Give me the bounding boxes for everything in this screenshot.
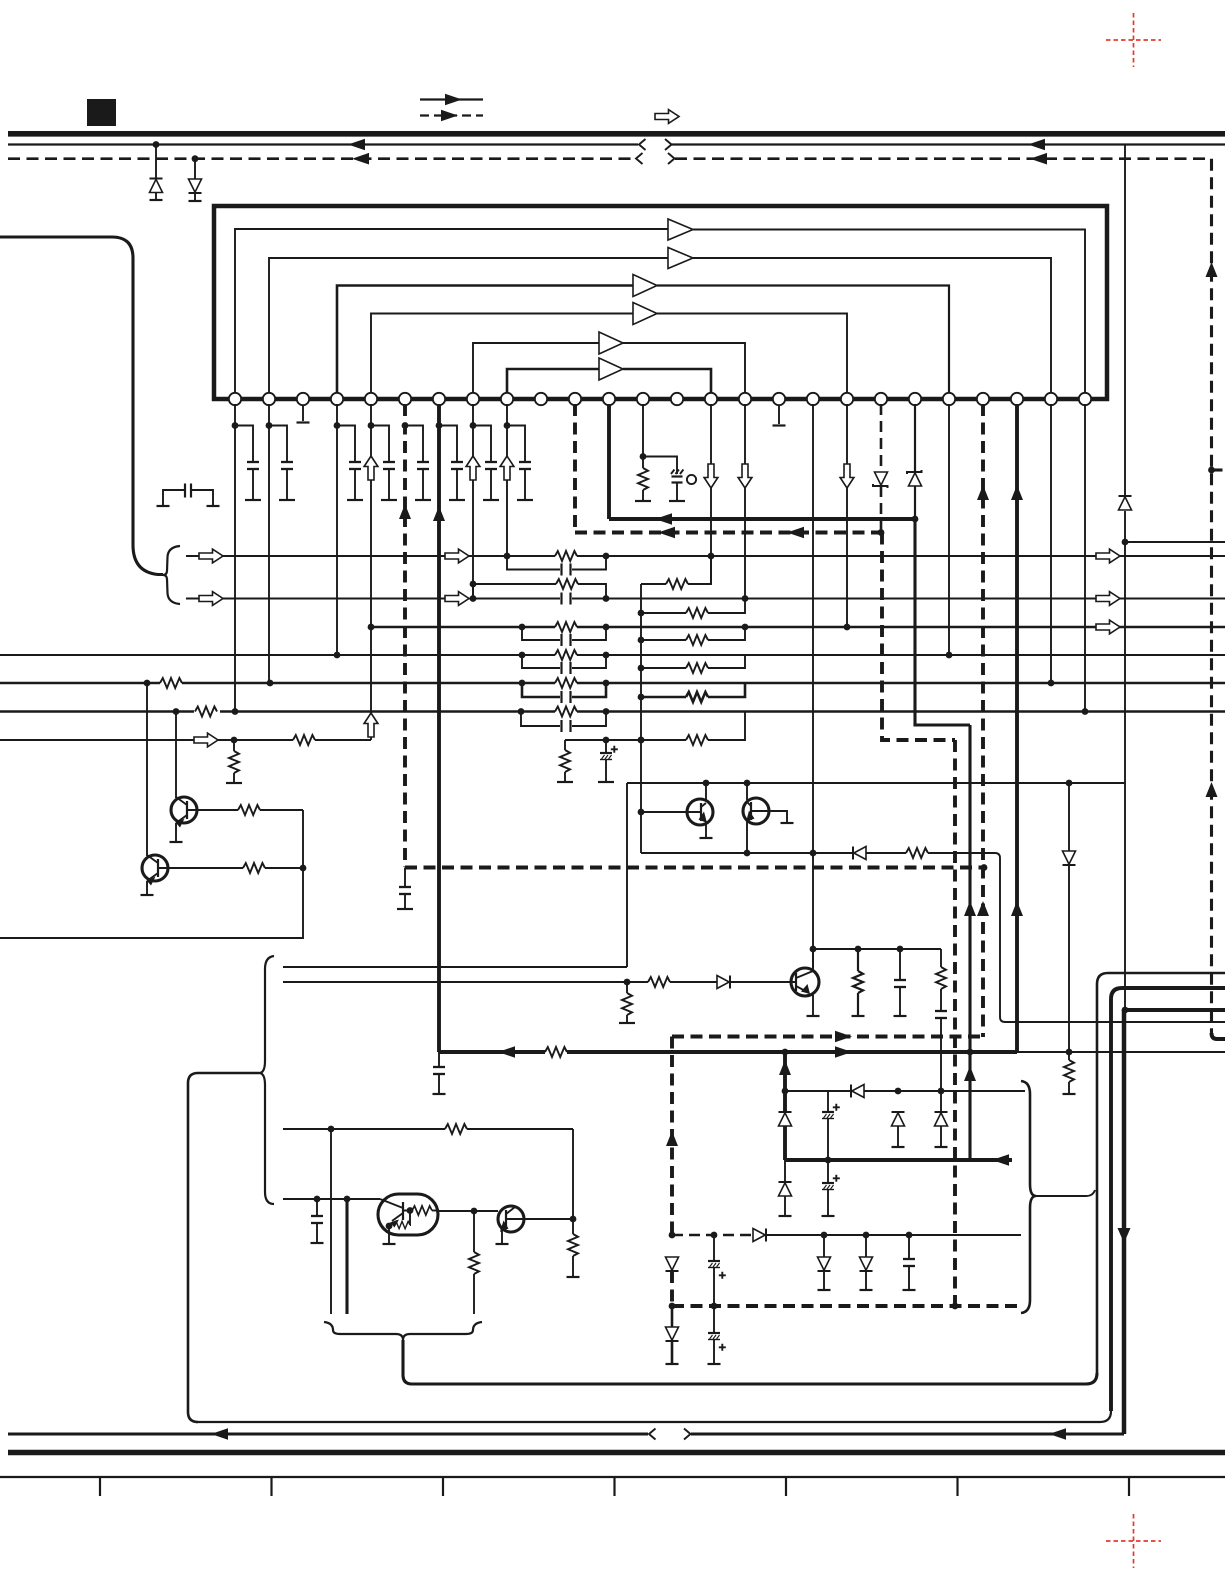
wire pin6 dashed drop <box>399 404 411 867</box>
buffer A3 input wire <box>337 286 633 396</box>
resistor R20 Q2 base <box>168 863 306 873</box>
wire pin12 thick drop <box>607 404 611 519</box>
buffer A4 <box>633 303 657 325</box>
capacitor C14 loop under y683 <box>522 683 606 703</box>
resistor R14 on y711.5 <box>555 707 577 717</box>
diode D13 x672 bottom <box>666 1306 679 1364</box>
wire: line y542 <box>1125 541 1225 543</box>
resistor R3 branch y584 right <box>641 556 711 589</box>
capacitor C11 on y598.5 <box>562 593 571 605</box>
wire: signal line y556 <box>186 549 1225 563</box>
capacitor C5 <box>405 426 431 501</box>
wire: thick line y1160 <box>785 1154 1012 1166</box>
pin3 nc stub <box>297 406 310 423</box>
brace B0 <box>163 546 180 604</box>
wire: bottom return line y1414 <box>196 1411 1111 1422</box>
wire: thick vertical x347 <box>345 1199 348 1314</box>
wire pin16 drop <box>738 404 752 598</box>
wire pin8 drop <box>466 404 480 598</box>
wire: right vertical x1097 with top corner <box>1097 973 1225 1373</box>
wire: bottom thick bus y1452.5 <box>8 1450 1225 1456</box>
node on dashed bus x195 <box>192 155 199 162</box>
capacitor C4 <box>371 426 397 501</box>
wire: thick line y627 <box>368 620 1225 634</box>
wire pin25 drop <box>1050 404 1052 683</box>
wire: right vertical x1111 with top corner <box>1111 988 1225 1411</box>
resistor R12 on y711.5 left <box>195 707 217 717</box>
wire pin23 dashed drop <box>977 404 989 1037</box>
diode D11 x824 <box>818 1235 831 1290</box>
wire: top thick bus <box>8 131 1225 137</box>
wire pin11 dashed drop <box>573 404 577 533</box>
diode D9 on y1235 <box>753 1229 766 1242</box>
wire Q3 emitter <box>700 824 713 838</box>
wire: signal line y598.5 <box>186 592 1225 606</box>
buffer A3 <box>633 275 657 297</box>
transistor Q4 <box>743 798 769 824</box>
wire: dashed line y867.5 <box>405 864 987 871</box>
wire: dashed stub y470 <box>1212 468 1225 471</box>
zener diode ZD3 x1125 <box>1118 495 1132 511</box>
resistor R24 on y982 <box>648 977 670 987</box>
buffer A4 input wire <box>371 314 633 396</box>
wire: vertical x331 <box>330 1129 332 1314</box>
buffer A6 <box>599 358 623 380</box>
capacitor C1 <box>235 426 261 501</box>
buffer A3 output wire <box>657 286 949 396</box>
buffer A1 output wire <box>693 230 1085 396</box>
electrolytic capacitor C25 x714 bottom <box>708 1306 726 1364</box>
wire pin26 drop <box>1084 404 1086 711</box>
capacitor C17 under pin6 corner <box>397 868 413 910</box>
diode D3 column x1069 <box>1063 783 1076 1052</box>
capacitor C13 loop under y655 <box>522 655 606 674</box>
diode D6 x898 <box>892 1112 905 1147</box>
resistor R23 x941 chain <box>936 949 946 1010</box>
capacitor C26 x317 <box>311 1199 324 1243</box>
wire pin21 drop <box>914 404 916 472</box>
transistor Q2 <box>142 855 168 886</box>
wire pin18 drop <box>812 404 814 968</box>
diode D1 on y853 <box>853 847 866 860</box>
wire pin22 drop <box>948 404 950 655</box>
wire: line y1384 <box>412 1373 1097 1384</box>
wire: pin21 thick path to x970 <box>912 516 970 725</box>
wire: dashed feedback line y532.5 <box>575 527 884 539</box>
wire Q5 emitter <box>807 995 820 1016</box>
brace left L1 <box>259 956 274 1204</box>
buffer A5 output wire <box>623 343 745 395</box>
diode D4 on y1091 <box>851 1085 864 1098</box>
wire pin13 drop <box>640 404 647 460</box>
wire: from brace L1 cusp to left rail <box>188 1073 259 1422</box>
diode D10 x672 <box>666 1257 679 1309</box>
buffer A6 output wire <box>623 369 711 395</box>
wire: dashed vertical x955 <box>953 740 957 1306</box>
brace right R1 <box>1021 1081 1036 1313</box>
buffer A2 <box>668 248 693 269</box>
wire pin5 drop <box>364 404 378 740</box>
wire: bottom frame line y1477 <box>0 1477 1225 1496</box>
thick feed wire to brace B0 <box>0 237 163 575</box>
wire: vertical x573 <box>570 1129 577 1222</box>
resistor R2 loop above y598.5 <box>470 579 606 599</box>
resistor R15 vertical under y740 <box>226 740 242 783</box>
resistor R9 on y683 left <box>160 678 182 688</box>
wire Q4 collector <box>746 783 748 800</box>
diode D8 x785 lower <box>779 1160 792 1216</box>
wire: line y1091 <box>782 1088 1025 1095</box>
resistor R11 branch y697 <box>641 683 745 702</box>
resistor R4 branch y613 <box>641 599 745 619</box>
transistor Q1 <box>171 797 197 828</box>
op-amp IC box U1 <box>214 206 1107 399</box>
electrolytic capacitor C22 x828 lower <box>822 1160 840 1216</box>
wire: thick line y683 <box>0 680 1225 687</box>
capacitor C8 <box>507 426 533 501</box>
resistor R25 x627 <box>619 982 635 1023</box>
wire: vertical x785 <box>779 1052 791 1112</box>
transistor Q3 <box>687 799 713 825</box>
wire Q7 emitter to ground bar <box>383 1226 396 1244</box>
wire: line y740 left <box>0 733 371 747</box>
wire: line y1199 <box>283 1196 380 1203</box>
node on thin bus x156 <box>153 141 160 148</box>
wire: bottom arrow line y1434 <box>8 1428 1124 1440</box>
brace under U1 <box>324 1322 482 1340</box>
buffer A4 output wire <box>657 314 847 396</box>
zener diode ZD2 <box>907 470 922 486</box>
trimmer capacitor CT1 <box>643 457 696 502</box>
capacitor C3 <box>337 426 363 501</box>
wire zd1 to dashed line <box>880 486 883 533</box>
capacitor C15 loop under y711.5 <box>521 712 606 733</box>
wire: thick vertical x1124 lower <box>1118 1010 1131 1434</box>
buffer A5 <box>599 332 623 354</box>
wire: dashed jog x882-y740-x955 <box>882 533 955 741</box>
capacitor C18 x900 <box>894 949 907 1016</box>
wire: thick line y1010 right <box>1124 1008 1225 1012</box>
wire Q4 emitter <box>746 822 748 853</box>
capacitor C7 <box>473 426 499 501</box>
wire pin9 drop <box>500 404 514 556</box>
diode D5 x785 <box>779 1112 792 1160</box>
resistor R13 <box>635 457 651 502</box>
electrolytic capacitor C21 x828 <box>822 1091 840 1163</box>
small coupling capacitor C9 <box>157 484 220 507</box>
capacitor C24 x909 <box>903 1235 916 1290</box>
wire: vertical x970 <box>964 725 976 1160</box>
buffer A1 input wire <box>235 229 668 395</box>
registration cross top <box>1106 13 1161 67</box>
diode D7 x941 <box>935 1112 948 1147</box>
wire Q1 collector <box>175 712 177 799</box>
wire: line y1129 <box>283 1126 573 1133</box>
wire: dashed vertical x672 <box>666 1037 678 1239</box>
wire Q6 emitter <box>496 1231 509 1244</box>
wire: ladder line y740 right <box>565 737 686 744</box>
wire: thick line y711.5 <box>0 708 1225 715</box>
capacitor C2 <box>269 426 295 501</box>
wire pin4 drop <box>334 404 341 655</box>
diode D_top1 <box>150 145 163 201</box>
wire Q2 emitter <box>141 881 154 895</box>
resistor R29 x474 <box>469 1211 479 1314</box>
black index square <box>87 99 116 126</box>
wire pin2 drop <box>266 404 273 683</box>
resistor R28 on y1129 <box>445 1124 467 1134</box>
wire: line y655 <box>0 652 1225 659</box>
wire: thick feedback line y519 <box>609 513 915 525</box>
electrolytic capacitor C23 x714 <box>708 1235 726 1309</box>
wire: thick dashed line y1036.5 <box>672 1031 983 1043</box>
legend dashed-arrow line <box>420 110 483 122</box>
legend solid-arrow line <box>420 94 483 106</box>
wire: from brace U1 cusp down to y1384 <box>403 1340 412 1384</box>
buffer A2 output wire <box>693 258 1051 395</box>
buffer A5 input wire <box>473 343 599 395</box>
wire: vertical x303 and return y938 <box>0 810 303 938</box>
wire: dashed corner to edge y1039 <box>1212 1033 1225 1039</box>
diode D2 on y982 <box>717 976 730 989</box>
wire: long vertical x1125 thin <box>1122 145 1129 1014</box>
wire: line y982 base net <box>283 979 791 986</box>
wire: line y783 <box>627 780 1125 787</box>
wire Q2 collector <box>146 683 148 856</box>
wire pin24 thick drop <box>1011 404 1023 1052</box>
wire: dashed vertical x1212 <box>1206 159 1218 1033</box>
wire: Q7 output line y1211 <box>438 1208 498 1215</box>
registration cross bottom <box>1106 1514 1161 1568</box>
resistor R30 x573 <box>567 1219 580 1277</box>
resistor R10 on y683 <box>555 678 577 688</box>
wire: ladder vertical x641 <box>638 584 645 853</box>
diode D12 x866 <box>860 1235 873 1290</box>
open arrow top middle <box>655 110 679 124</box>
resistor R6 branch y640 <box>641 627 745 645</box>
buffer A1 <box>668 219 693 240</box>
wire: top thin bus <box>8 139 1225 151</box>
wire Q6 to node x573 <box>524 1218 573 1220</box>
capacitor C19 x941 <box>935 1011 947 1112</box>
wire pin1 drop <box>232 404 239 711</box>
resistor R27 x1069 <box>1063 1052 1076 1094</box>
wire pin7 thick drop <box>433 404 445 1052</box>
wire pin20 dashed drop <box>880 404 883 472</box>
wire: thick line y1052 <box>439 1046 1072 1058</box>
wire: dashed line y1306 <box>672 1303 1022 1310</box>
capacitor C20 under pin7 corner <box>433 1052 446 1094</box>
resistor R17 on y740 right <box>686 712 745 746</box>
wire: line y967 <box>283 966 627 968</box>
zener diode ZD1 <box>873 472 888 488</box>
wire from brace R1 cusp <box>1036 1190 1095 1196</box>
digital transistor Q7 oval <box>378 1194 438 1235</box>
pin17 nc stub <box>773 406 786 426</box>
transistor Q6 <box>498 1206 524 1232</box>
wire Q5 collector <box>812 949 814 971</box>
resistor R5 on y627 <box>555 622 577 632</box>
wire: line y1022 <box>1005 1021 1225 1023</box>
buffer A2 input wire <box>269 258 668 395</box>
electrolytic capacitor C16 <box>598 740 618 782</box>
resistor R21 on y853 <box>906 848 928 858</box>
wire: line y1235 <box>672 1232 1021 1239</box>
resistor R16 on y740 <box>293 735 315 745</box>
wire: vertical x627 <box>626 783 628 967</box>
wire Q3 base <box>641 811 687 813</box>
resistor R8 branch y668 <box>641 655 745 673</box>
resistor R26 on y1052 <box>545 1047 567 1057</box>
capacitor C10 loop under y556 <box>507 556 606 576</box>
wire Q3 collector <box>705 783 707 801</box>
resistor R1 on y556 <box>555 551 577 561</box>
wire: thin line y1052 right <box>1017 1051 1225 1053</box>
transistor Q5 <box>791 968 819 996</box>
diode D_top2 <box>189 159 202 201</box>
wire: line y853 <box>641 850 1005 1022</box>
capacitor C12 loop under y627 <box>522 627 606 646</box>
wire: top dashed bus <box>8 153 1211 165</box>
IC pins 1-26 <box>229 393 1091 405</box>
wire zd2 down <box>914 486 916 519</box>
wire pin15 drop <box>704 404 718 584</box>
resistor R18 vertical x565 <box>557 740 573 782</box>
resistor R7 on y655 <box>555 650 577 660</box>
resistor R22 x858 <box>852 949 865 1016</box>
wire: line y949 <box>810 946 941 953</box>
buffer A6 input wire <box>507 369 599 395</box>
capacitor C6 <box>439 426 465 501</box>
Q4 base stub to bar <box>762 811 794 823</box>
resistor R19 Q1 base <box>197 805 303 815</box>
wire pin19 drop <box>840 404 854 627</box>
wire Q1 emitter <box>170 823 183 842</box>
